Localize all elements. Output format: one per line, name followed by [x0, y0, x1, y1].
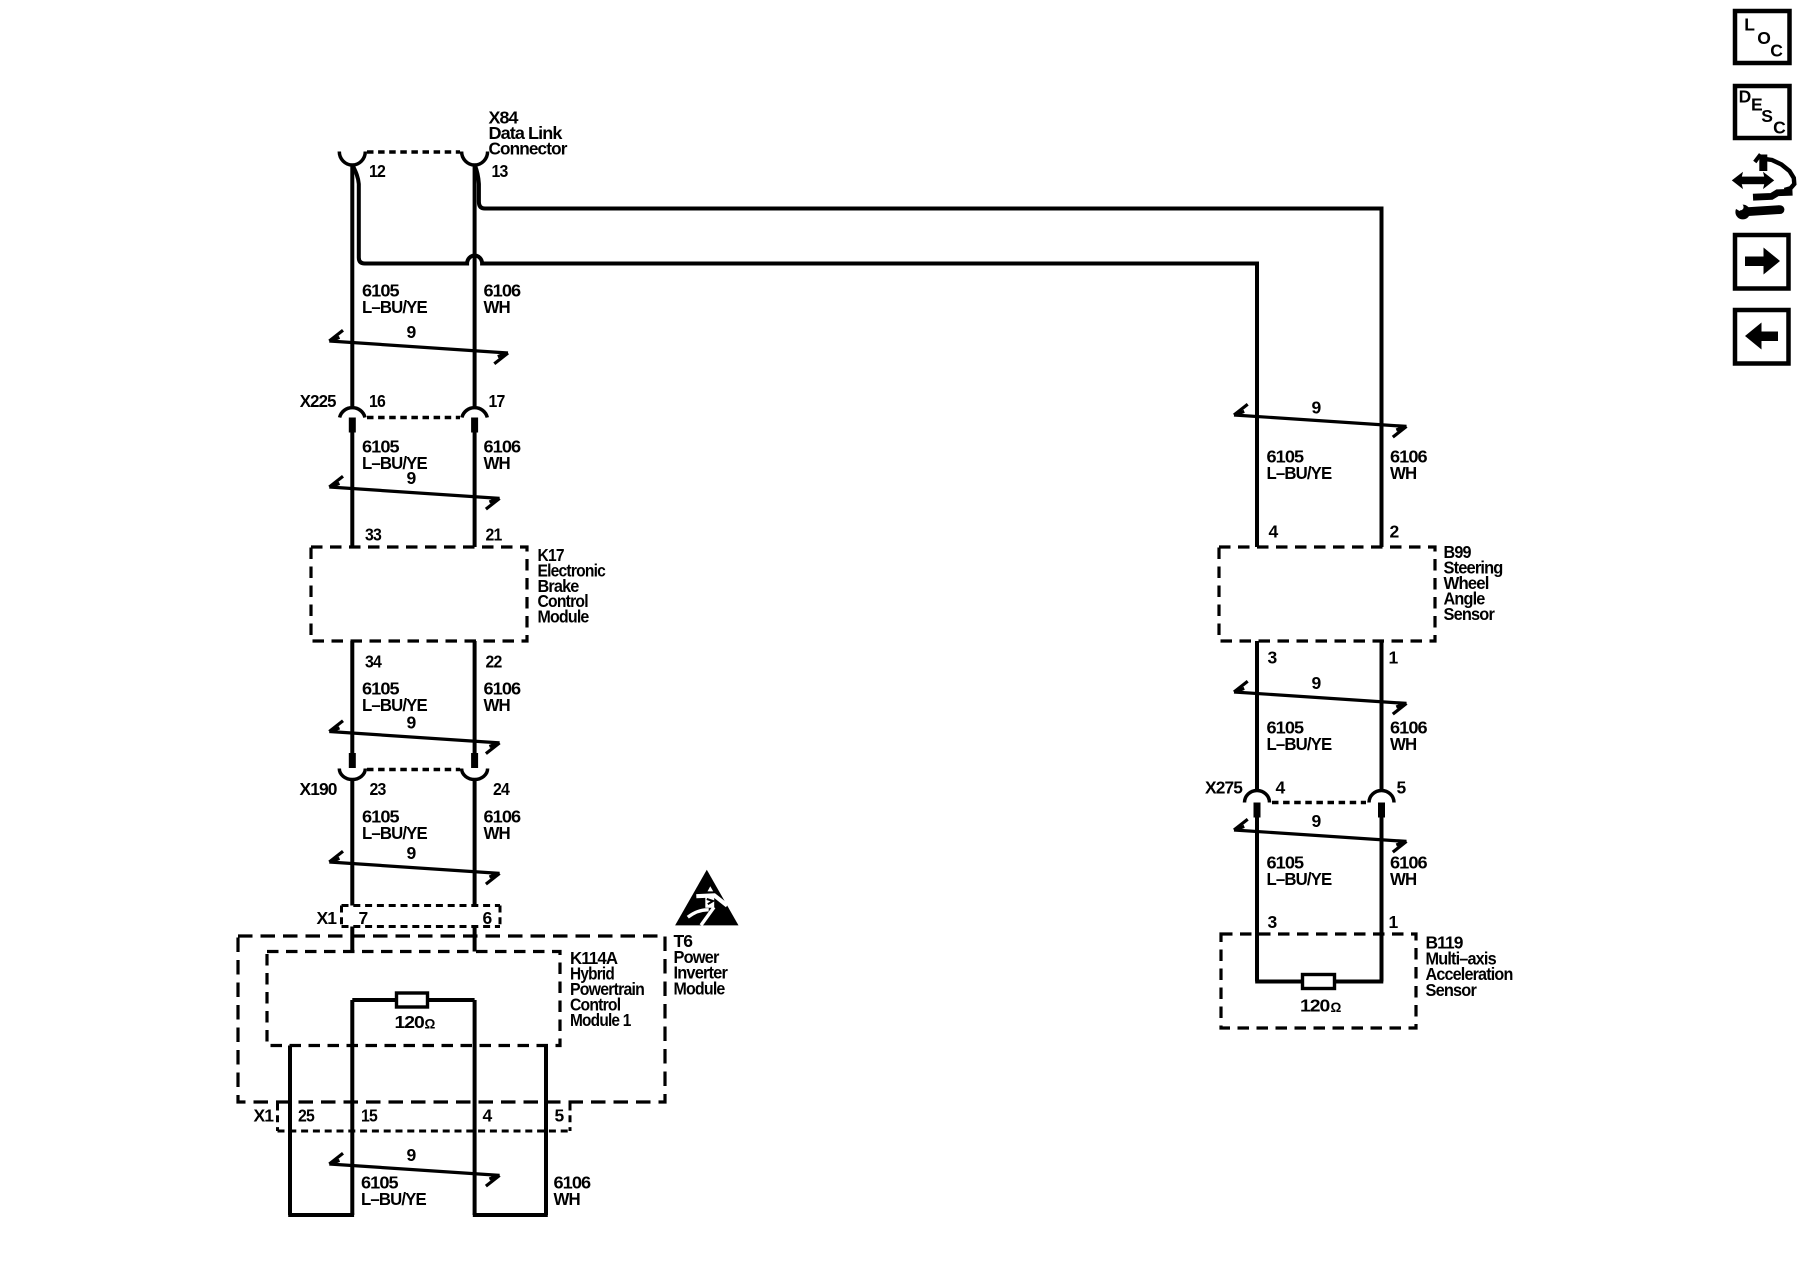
svg-text:L–BU/YE: L–BU/YE [361, 1189, 426, 1209]
svg-text:9: 9 [1312, 398, 1322, 418]
module K17 Electronic Brake Control Module box [311, 547, 527, 641]
svg-text:Ω: Ω [425, 1017, 436, 1032]
wire label 6105 L-BU/YE (below X84) [362, 281, 427, 318]
svg-text:4: 4 [1276, 778, 1286, 798]
wire 6105 X84 pin 12 down to X225 pin 16 [350, 165, 354, 407]
wire label 6106 WH (X190 to X1) [484, 806, 522, 843]
twisted pair marker 9 (X190 to X1) [329, 843, 499, 884]
svg-text:WH: WH [484, 695, 511, 715]
wire label 6105 L-BU/YE (X275 to B119) [1267, 852, 1332, 889]
connector X1 (bottom) strip [278, 1104, 571, 1132]
svg-text:L–BU/YE: L–BU/YE [1267, 734, 1332, 754]
value label 120 ohm (B119) [1300, 996, 1342, 1016]
wire CAN-L inside K114A to pin 15 [350, 1000, 354, 1215]
wire 6105 B99 pin 3 to X275 pin 4 [1255, 641, 1259, 791]
wire 6105 from X84 pin 12 right to B99 pin 4 (with hop over 6106) [353, 165, 1258, 547]
wire 6105 K17 pin 34 to X190 pin 23 [350, 641, 354, 754]
twisted pair marker 9 (X275 to B119) [1234, 811, 1407, 852]
twisted pair marker 9 (X225 to K17) [329, 468, 499, 509]
svg-text:7: 7 [359, 908, 368, 928]
svg-text:13: 13 [492, 161, 509, 181]
warning triangle icon (T6) [675, 870, 738, 926]
svg-text:6: 6 [483, 908, 493, 928]
wire 6106 from X84 pin 13 right to B99 pin 2 [475, 165, 1382, 547]
svg-text:C: C [1770, 41, 1783, 61]
svg-text:3: 3 [1268, 648, 1278, 668]
wire label 6106 WH (K17 to X190) [484, 678, 522, 715]
wire label 6105 L-BU/YE (B99 to X275) [1267, 717, 1332, 754]
wire label 6106 WH (B99 to X275) [1390, 717, 1428, 754]
svg-text:9: 9 [1312, 811, 1322, 831]
svg-text:15: 15 [361, 1106, 378, 1126]
svg-text:D: D [1739, 87, 1751, 107]
svg-text:1: 1 [1389, 912, 1399, 932]
label B119 Multi-axis Acceleration Sensor [1426, 933, 1513, 1000]
svg-text:WH: WH [1390, 734, 1417, 754]
svg-text:4: 4 [483, 1106, 493, 1126]
twisted pair marker 9 (X84 to X225) [329, 322, 508, 364]
svg-text:9: 9 [407, 468, 417, 488]
twisted pair marker 9 (B99 to X275) [1234, 673, 1407, 714]
svg-text:9: 9 [407, 1145, 417, 1165]
svg-text:L–BU/YE: L–BU/YE [362, 297, 427, 317]
svg-text:L: L [1744, 15, 1755, 35]
connector X1 (top) strip [342, 906, 501, 927]
svg-text:L–BU/YE: L–BU/YE [1267, 463, 1332, 483]
twisted pair marker 9 (K17 to X190) [329, 713, 499, 754]
svg-text:C: C [1773, 118, 1786, 138]
svg-text:5: 5 [1397, 778, 1407, 798]
svg-text:16: 16 [369, 391, 386, 411]
svg-text:24: 24 [493, 779, 510, 799]
label X84 Data Link Connector [489, 108, 568, 159]
svg-text:33: 33 [365, 525, 382, 545]
icon double arrow with wrench [1731, 154, 1794, 219]
wire 6105 X190 pin 23 to X1 pin 7 [350, 780, 354, 906]
wire CAN-H inside K114A to pin 4 [473, 1000, 477, 1215]
svg-text:9: 9 [1312, 673, 1322, 693]
svg-text:X1: X1 [317, 908, 338, 928]
svg-text:12: 12 [369, 161, 386, 181]
icon box LOC [1735, 11, 1790, 63]
module B119 Multi-axis Acceleration Sensor box [1221, 934, 1416, 1028]
svg-text:Module: Module [674, 978, 726, 998]
svg-text:1: 1 [1389, 648, 1399, 668]
wire 6106 X1 pin 6 into K114A [473, 927, 477, 952]
svg-text:120: 120 [395, 1012, 426, 1032]
svg-text:Ω: Ω [1331, 1000, 1342, 1015]
module K114A Hybrid Powertrain Control Module 1 box [267, 952, 560, 1046]
svg-text:L–BU/YE: L–BU/YE [362, 823, 427, 843]
svg-text:25: 25 [298, 1106, 315, 1126]
svg-text:21: 21 [486, 525, 503, 545]
wire label 6105 L-BU/YE (above B99) [1267, 446, 1332, 483]
wire 6106 X275 pin 5 to B119 pin 1 [1380, 818, 1384, 935]
svg-text:5: 5 [555, 1106, 565, 1126]
svg-text:WH: WH [484, 453, 511, 473]
value label 120 ohm (K114A) [395, 1012, 436, 1032]
wire label 6105 L-BU/YE (X225 to K17) [362, 436, 427, 473]
wire 6106 X225 pin 17 to K17 pin 21 [473, 433, 477, 548]
svg-text:WH: WH [484, 297, 511, 317]
svg-text:WH: WH [484, 823, 511, 843]
svg-text:3: 3 [1268, 912, 1278, 932]
wire label 6105 L-BU/YE (bottom loop) [361, 1172, 426, 1209]
svg-text:4: 4 [1269, 522, 1279, 542]
wire B119 pin 3 to resistor [1255, 934, 1259, 982]
svg-text:2: 2 [1390, 522, 1400, 542]
label T6 Power Inverter Module [674, 931, 729, 998]
svg-text:Module: Module [538, 607, 590, 627]
connector X275 symbol [1245, 791, 1395, 818]
twisted pair marker 9 (below X1 bottom) [329, 1145, 499, 1186]
connector X190 symbol [339, 753, 487, 780]
svg-text:9: 9 [407, 322, 417, 342]
svg-text:9: 9 [407, 713, 417, 733]
wire label 6106 WH (above B99) [1390, 446, 1428, 483]
wire from K114A to X1 pin 25 [288, 1046, 292, 1216]
svg-text:WH: WH [1390, 869, 1417, 889]
label K114A Hybrid Powertrain Control Module 1 [570, 948, 644, 1030]
wire 6106 K17 pin 22 to X190 pin 24 [473, 641, 477, 754]
label K17 Electronic Brake Control Module [538, 545, 607, 627]
wire B119 pin 1 to resistor [1380, 934, 1384, 982]
svg-text:Sensor: Sensor [1426, 980, 1478, 1000]
svg-text:WH: WH [554, 1189, 581, 1209]
svg-text:O: O [1757, 28, 1770, 48]
wire label 6106 WH (X225 to K17) [484, 436, 522, 473]
svg-text:X1: X1 [254, 1106, 275, 1126]
wire label 6106 WH (below X84) [484, 281, 522, 318]
label B99 Steering Wheel Angle Sensor [1444, 542, 1503, 624]
module T6 Power Inverter Module outer box [238, 936, 665, 1102]
wire 6106 B99 pin 1 to X275 pin 5 [1380, 641, 1384, 791]
wire across resistor R term [352, 998, 474, 1002]
svg-text:17: 17 [489, 391, 505, 411]
svg-text:WH: WH [1390, 463, 1417, 483]
wire label 6106 WH (bottom loop) [554, 1172, 592, 1209]
connector X84 symbol [339, 152, 487, 166]
icon box DESC [1735, 86, 1790, 138]
wire 6106 X84 pin 13 down to X225 pin 17 [473, 165, 477, 407]
wire label 6105 L-BU/YE (X190 to X1) [362, 806, 427, 843]
module B99 Steering Wheel Angle Sensor box [1219, 547, 1435, 641]
svg-text:9: 9 [407, 843, 417, 863]
icon box arrow left [1735, 310, 1789, 364]
svg-text:X190: X190 [300, 779, 338, 799]
wire label 6105 L-BU/YE (K17 to X190) [362, 678, 427, 715]
icon box arrow right [1735, 235, 1789, 289]
svg-text:Module 1: Module 1 [570, 1010, 632, 1030]
svg-text:34: 34 [365, 652, 382, 672]
svg-text:L–BU/YE: L–BU/YE [1267, 869, 1332, 889]
svg-text:120: 120 [1300, 996, 1331, 1016]
wire 6105 X1 pin 7 into K114A [350, 927, 354, 952]
wire 6105 X275 pin 4 to B119 pin 3 [1255, 818, 1259, 935]
svg-text:L–BU/YE: L–BU/YE [362, 453, 427, 473]
wire 6105 X225 pin 16 to K17 pin 33 [350, 433, 354, 548]
svg-text:L–BU/YE: L–BU/YE [362, 695, 427, 715]
svg-text:X275: X275 [1205, 778, 1243, 798]
svg-text:X225: X225 [300, 391, 337, 411]
wire loop pin 4 to pin 5 [473, 1213, 548, 1217]
wire label 6106 WH (X275 to B119) [1390, 852, 1428, 889]
resistor 120 ohm terminating (B119) [1303, 975, 1335, 989]
resistor 120 ohm terminating (K114A) [397, 993, 428, 1007]
wire loop pin 25 to pin 15 [288, 1213, 354, 1217]
wire 6106 X190 pin 24 to X1 pin 6 [473, 780, 477, 906]
svg-text:Sensor: Sensor [1444, 604, 1496, 624]
twisted pair marker 9 (right, above B99) [1234, 398, 1407, 438]
wire from K114A to X1 pin 5 [544, 1046, 548, 1216]
connector X225 symbol [340, 408, 488, 433]
wire across resistor (B119) [1255, 980, 1383, 984]
svg-text:Connector: Connector [489, 138, 568, 158]
svg-text:22: 22 [486, 652, 503, 672]
svg-text:23: 23 [370, 779, 387, 799]
svg-text:S: S [1761, 106, 1772, 126]
